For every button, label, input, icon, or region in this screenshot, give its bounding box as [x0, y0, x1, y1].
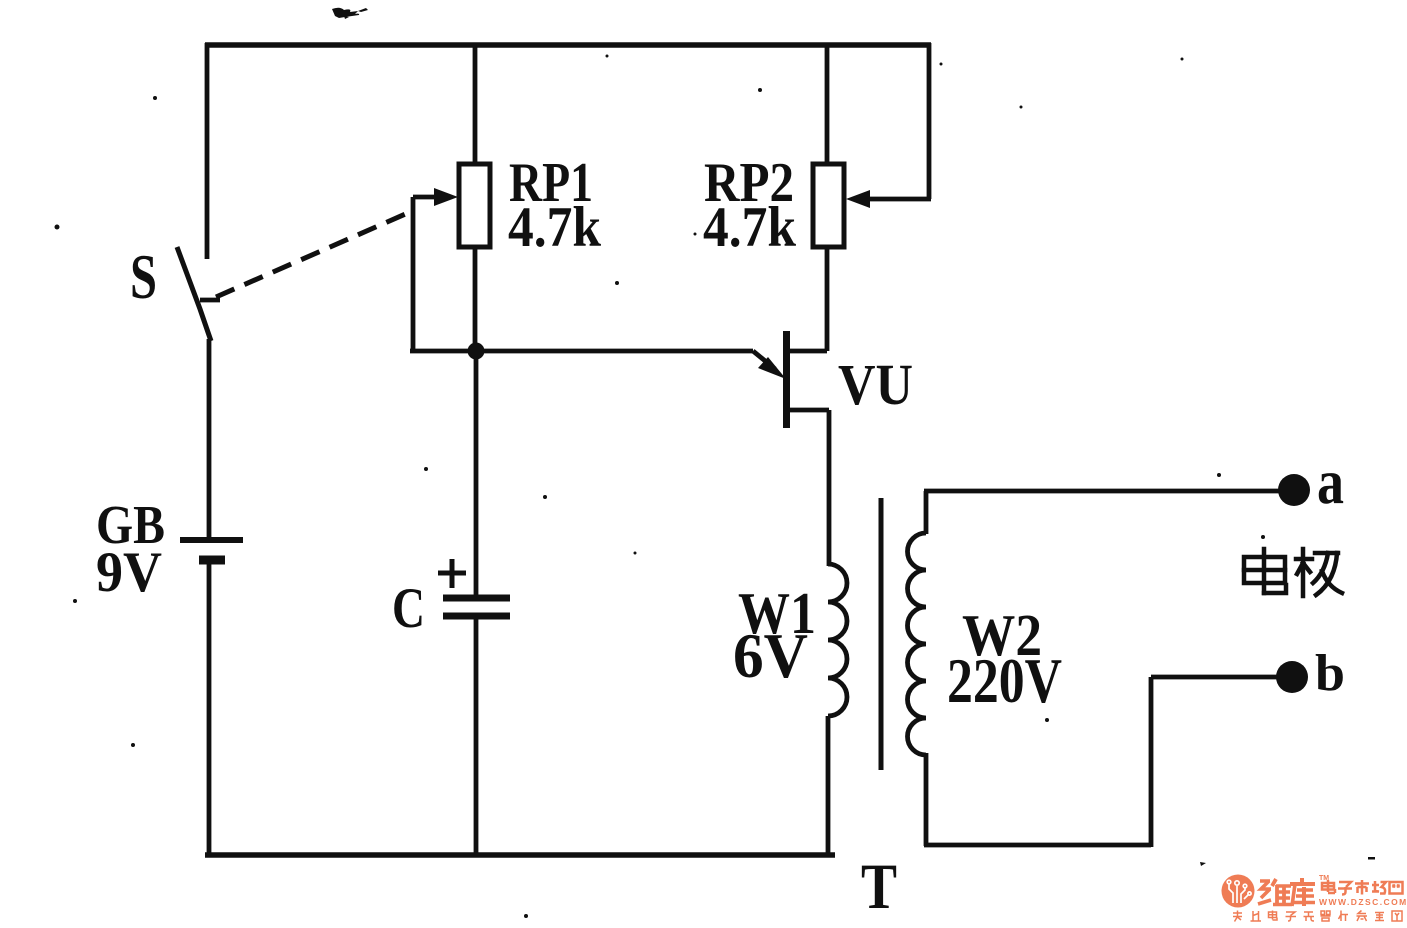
battery GB	[180, 540, 243, 560]
wire RP1 bottom lead	[473, 247, 478, 351]
wire W2 top lead	[924, 491, 929, 534]
svg-text:WWW.DZSC.COM: WWW.DZSC.COM	[1319, 897, 1407, 907]
inductor W1	[828, 564, 847, 716]
wire RP2 wiper	[846, 190, 931, 208]
svg-text:220V: 220V	[947, 645, 1062, 716]
wire output a	[924, 489, 1282, 494]
wire W1 bottom lead	[826, 716, 831, 857]
wire capacitor bottom lead	[474, 619, 479, 857]
switch S	[177, 247, 220, 341]
svg-text:4.7k: 4.7k	[508, 196, 601, 259]
inductor W2	[908, 533, 927, 755]
svg-text:a: a	[1317, 446, 1344, 517]
wire left vertical upper	[205, 43, 210, 259]
wire bottom rail	[205, 852, 835, 858]
wire top rail	[205, 42, 931, 48]
wire left vertical lower	[207, 562, 212, 857]
wire right vertical	[927, 43, 932, 199]
svg-text:T: T	[861, 851, 897, 923]
watermark text 电子市场网	[1322, 880, 1403, 895]
transistor VU	[753, 331, 829, 428]
wire left vertical middle	[207, 339, 212, 539]
wire RP1 top lead	[473, 43, 478, 164]
terminal b	[1276, 661, 1308, 693]
svg-text:6V: 6V	[733, 621, 808, 691]
watermark logo circle	[1222, 875, 1255, 908]
wire RP1 wiper	[413, 188, 458, 351]
label electrode 电极	[1244, 549, 1342, 596]
wire RP2 top lead	[825, 43, 830, 164]
watermark slogan 专业电子元器件交易网站	[1233, 911, 1402, 922]
potentiometer RP1	[459, 164, 490, 247]
terminal a	[1278, 474, 1310, 506]
wire W2 bottom to b	[924, 677, 1280, 847]
wire transistor to W1	[827, 410, 832, 566]
wire capacitor top lead	[474, 351, 479, 595]
stain top smudge	[332, 8, 368, 19]
wire RP2 bottom lead	[825, 247, 830, 351]
svg-text:VU: VU	[838, 352, 913, 417]
svg-text:4.7k: 4.7k	[703, 196, 796, 259]
svg-text:C: C	[392, 577, 425, 640]
watermark brand 维库	[1258, 878, 1315, 906]
transformer core	[879, 498, 884, 770]
node junction	[468, 343, 485, 360]
wire W2 bottom lead	[924, 753, 929, 846]
svg-text:9V: 9V	[96, 541, 162, 604]
wire dashed link S to RP1	[216, 212, 410, 297]
svg-text:b: b	[1315, 645, 1345, 702]
svg-text:S: S	[130, 241, 157, 312]
wire middle horizontal	[410, 349, 753, 354]
capacitor C	[438, 559, 510, 616]
potentiometer RP2	[813, 164, 844, 247]
